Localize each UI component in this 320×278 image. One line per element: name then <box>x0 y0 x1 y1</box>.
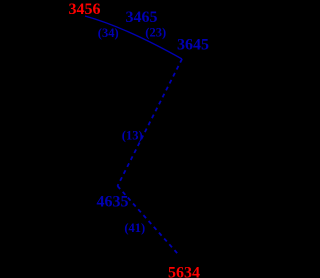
svg-text:3456: 3456 <box>69 1 101 18</box>
svg-text:5634: 5634 <box>168 264 200 278</box>
wire edge 3456-3465-3645 solid curve <box>85 16 182 59</box>
svg-text:(41): (41) <box>124 221 145 235</box>
svg-text:3645: 3645 <box>177 37 209 54</box>
wire edge 4635-5634 dashed <box>118 186 178 254</box>
svg-text:4635: 4635 <box>97 194 129 211</box>
svg-text:3465: 3465 <box>126 9 158 26</box>
svg-text:(34): (34) <box>98 26 119 40</box>
svg-text:(23): (23) <box>145 26 166 40</box>
wire edge 3645-4635 dashed <box>118 59 183 186</box>
svg-text:(13): (13) <box>122 129 143 143</box>
permutation chain diagram <box>0 0 256 278</box>
